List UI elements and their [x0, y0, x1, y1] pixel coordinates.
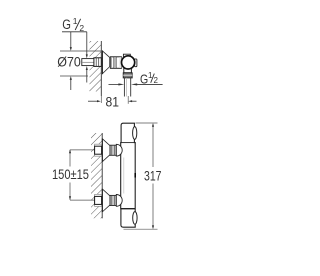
svg-text:150±15: 150±15	[52, 167, 89, 182]
svg-text:317: 317	[144, 168, 162, 183]
svg-text:Ø70: Ø70	[57, 54, 81, 69]
svg-text:81: 81	[106, 94, 120, 109]
svg-text:1: 1	[73, 16, 78, 26]
svg-text:G: G	[62, 17, 71, 32]
svg-text:2: 2	[154, 76, 159, 85]
